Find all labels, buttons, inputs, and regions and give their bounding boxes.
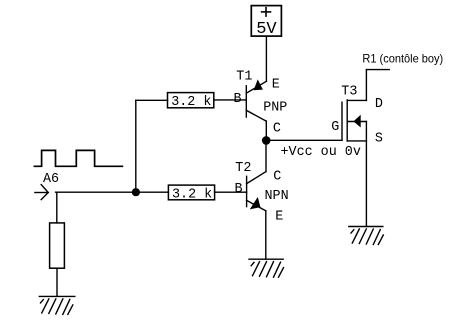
svg-text:D: D: [375, 97, 383, 112]
mosfet T3: [342, 70, 366, 141]
svg-text:T3: T3: [341, 85, 357, 100]
wire upper resistor to T1 base: [214, 99, 247, 101]
input square wave signal: [34, 150, 122, 166]
svg-text:C: C: [273, 170, 281, 185]
wire T3 drain stub to R1: [366, 69, 389, 71]
wire input to node A: [56, 191, 169, 193]
svg-text:B: B: [235, 182, 243, 197]
ground under T3 source: [349, 227, 384, 245]
svg-text:T1: T1: [236, 69, 252, 84]
wire lower resistor to T2 base: [215, 191, 247, 193]
svg-text:T2: T2: [235, 161, 251, 176]
svg-text:E: E: [272, 77, 280, 92]
svg-text:S: S: [375, 132, 383, 147]
svg-text:3.2 k: 3.2 k: [172, 187, 212, 202]
input arrow A6: [35, 185, 48, 200]
T3 source arrow: [354, 116, 360, 127]
resistor 3.2k upper: [168, 93, 214, 108]
T2 emitter arrow: [251, 198, 260, 208]
resistor 3.2k lower: [168, 185, 214, 200]
transistor T2 (NPN): [247, 172, 266, 259]
svg-text:3.2 k: 3.2 k: [171, 95, 211, 110]
wire T3 source to ground: [365, 122, 367, 227]
svg-text:C: C: [273, 122, 281, 137]
ground bottom left: [39, 296, 75, 314]
T1 emitter arrow: [254, 81, 262, 90]
wire node C to gate of T3: [271, 139, 343, 141]
transistor T1 (PNP): [246, 81, 266, 141]
wire node A up to upper resistor: [136, 100, 168, 192]
svg-text:E: E: [275, 210, 283, 225]
svg-text:NPN: NPN: [265, 189, 289, 204]
svg-text:R1 (contôle boy): R1 (contôle boy): [362, 51, 443, 65]
wire branch down to pull-down resistor: [56, 192, 58, 223]
wire resistor to ground: [56, 268, 58, 296]
ground under T2: [249, 259, 284, 277]
pull-down resistor: [50, 223, 65, 268]
svg-text:PNP: PNP: [263, 100, 287, 115]
node A junction dot: [132, 188, 140, 196]
node C junction dot: [262, 136, 271, 145]
wire 5V box to T1 emitter: [265, 36, 267, 81]
svg-text:A6: A6: [43, 172, 59, 187]
wire node to T2 collector: [265, 140, 267, 171]
power supply +5V box: [251, 6, 281, 36]
svg-text:+Vcc ou 0v: +Vcc ou 0v: [281, 145, 361, 160]
svg-text:G: G: [331, 120, 339, 135]
